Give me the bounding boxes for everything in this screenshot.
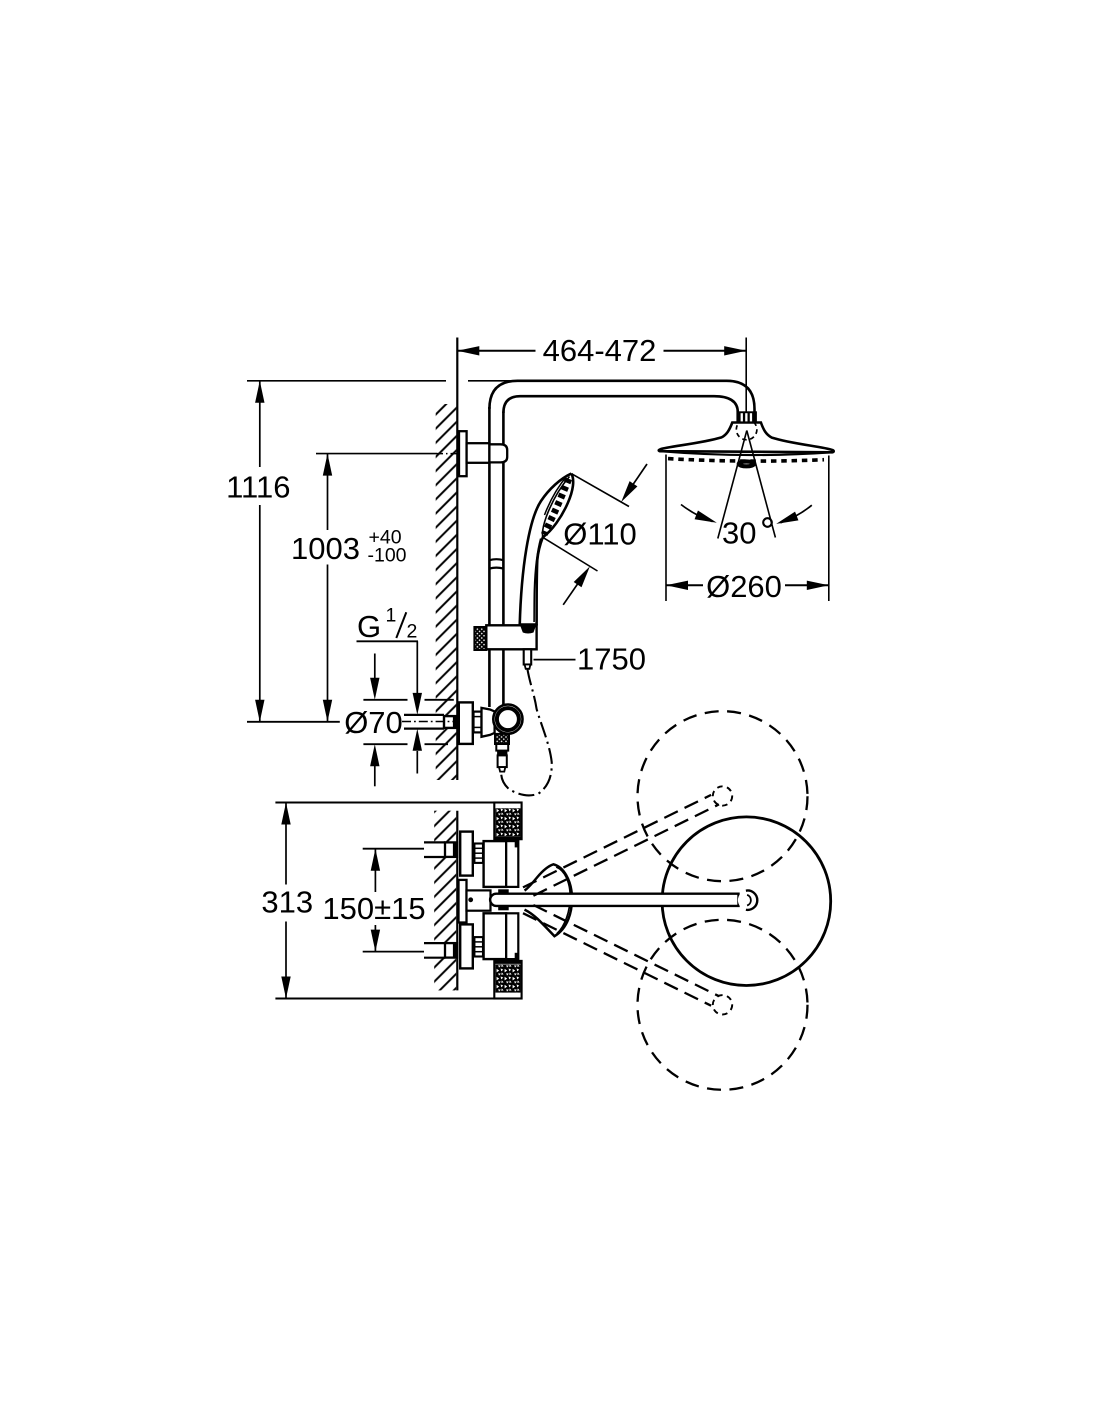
upper in-wall square [445,842,457,857]
hand shower face and handle right edge [537,474,574,626]
dimension 464-472 right extension / centerline [745,338,747,413]
trumpet inner rim [556,867,570,934]
svg-text:30: 30 [722,516,756,551]
dimension Ø110 extension lines [571,474,629,507]
wall hatch elevation [436,404,457,780]
upper flange plan [460,832,473,876]
svg-text:1116: 1116 [226,470,290,505]
center flange plan [459,880,467,923]
30 deg arc right with arrow [781,505,812,523]
dimension line Ø260 [666,584,703,586]
upper body block [484,841,507,887]
supply centerline [402,721,459,723]
arm end hook [738,891,757,910]
thermostat handle [493,705,522,734]
dimension 1003 line [327,454,329,530]
hose connector stack [496,744,508,751]
Ø70 tick bottom [363,743,407,745]
svg-text:Ø70: Ø70 [344,705,403,740]
wall bracket arm [467,443,490,463]
shower arm pipe [489,381,754,413]
trumpet escutcheon plan [525,864,572,936]
riser pipe [488,407,491,707]
G 1/2 underline [357,640,419,642]
30 deg arc left with arrow [681,505,713,522]
wall bracket plate [459,431,467,476]
lower body block [484,913,507,959]
spray jets band [544,479,569,535]
in-wall square fitting [444,716,457,728]
handle inner line [534,539,541,623]
handle cone in holder [519,623,537,633]
upper tile block [494,803,521,840]
shower hose dash-dot [501,670,552,796]
dimension 1003 extension line [316,453,437,455]
Ø70 lower arrows [370,744,379,766]
G 1/2 leader right with arrow to pipe [416,641,418,696]
Ø70 upper arrow left [374,654,376,682]
hand shower head back outline [520,474,572,626]
svg-text:1750: 1750 [577,642,646,677]
supply pipe elevation [404,716,444,728]
supply centerline baseline [247,721,340,723]
plan wall hatch [434,811,456,991]
Ø110 arrow lower [563,573,585,605]
lower ribbed adapter [474,937,483,956]
swivel circle solid [662,817,831,986]
dashed hook lower [713,995,732,1014]
center body plan [467,890,491,910]
dimension line 464-472 [457,350,535,352]
upper supply pipe plan [424,843,445,856]
plan top extension line [275,802,494,804]
top reference line y380 [247,380,446,382]
svg-text:464-472: 464-472 [543,333,657,368]
pipe clamp [489,444,507,462]
Ø70 tick top [363,699,407,701]
dimension Ø260 extension lines [665,455,667,602]
upper ribbed adapter [474,844,483,863]
shower swivel arm [490,894,738,906]
mixer wall flange [459,702,473,744]
svg-text:2: 2 [407,621,418,643]
dimension 313 line [285,803,287,885]
lower in-wall square [445,943,457,958]
lower tile block [494,961,521,999]
svg-text:Ø260: Ø260 [706,569,782,604]
svg-text:G: G [357,609,381,644]
spray cone lines [718,431,747,539]
locating dot [468,897,473,902]
svg-text:Ø110: Ø110 [563,517,637,552]
wall face line elevation [456,338,458,781]
hose connector at holder [524,649,532,664]
dimension 150±15 ticks [363,848,445,850]
plan wall face line [456,811,458,991]
dashed arm upper [523,795,711,888]
dashed arm lower [523,913,711,1006]
svg-text:1: 1 [386,605,397,627]
dome rim bottom [660,451,833,455]
dashed hook upper [713,786,732,805]
swivel nut [737,412,757,423]
holder crosshatch pad [474,627,486,650]
svg-text:-100: -100 [368,545,407,567]
1750 leader line [534,659,576,661]
knurled outlet [495,734,509,744]
svg-text:150±15: 150±15 [322,891,425,926]
swivel circle dashed top [638,711,808,881]
dimension 150±15 line [374,849,376,892]
overhead shower dome [659,423,834,453]
face rim line [543,477,570,537]
spray nozzle row [668,459,824,462]
ball joint dashed [736,419,757,440]
holder body [486,625,536,649]
mixer body taper [482,708,495,737]
pipe joint sleeve [489,559,503,568]
svg-text:313: 313 [261,885,313,920]
arm socket dark marks [498,889,509,893]
lower supply pipe plan [424,944,445,957]
plan bottom extension line [275,998,521,1000]
Ø110 arrow upper [625,464,648,497]
swivel circle dashed bottom [638,920,808,1090]
dimension 1116 line [259,381,261,467]
svg-text:1003: 1003 [291,531,360,566]
lower flange plan [460,924,473,968]
mixer union nut [474,712,482,733]
central nozzle [739,462,754,467]
